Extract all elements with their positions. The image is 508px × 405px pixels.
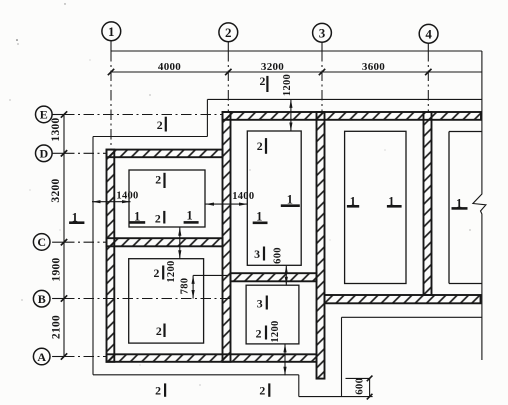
top dimension line with ticks — [110, 71, 482, 73]
dimension 1400 right — [206, 203, 248, 205]
grid line 1 centerline — [110, 41, 112, 51]
svg-text:3: 3 — [254, 247, 260, 261]
grid line 3 centerline — [321, 42, 323, 51]
footing rect small middle room — [246, 285, 299, 344]
top boundary dimension line — [111, 50, 482, 52]
svg-text:2: 2 — [153, 266, 159, 280]
svg-text:3: 3 — [257, 296, 263, 310]
grid bubble E — [36, 106, 53, 123]
svg-text:1: 1 — [108, 24, 115, 39]
outline lower-right edge — [342, 316, 482, 318]
svg-text:A: A — [37, 350, 46, 364]
outline step at grid 2 — [206, 99, 208, 136]
svg-text:2: 2 — [155, 383, 161, 397]
svg-text:1: 1 — [256, 210, 262, 224]
svg-text:600: 600 — [353, 378, 365, 395]
footing rect room D-C — [129, 170, 205, 227]
dimension 1400 left — [92, 201, 131, 203]
wall grid-C horizontal — [107, 238, 223, 246]
grid bubble 3 — [313, 23, 332, 42]
footing rect room C-A — [129, 259, 204, 343]
svg-text:2: 2 — [257, 139, 263, 153]
grid line 2 centerline — [227, 42, 229, 51]
grid bubble 2 — [219, 23, 238, 42]
svg-text:2: 2 — [256, 326, 262, 340]
outline left edge — [92, 137, 94, 375]
svg-text:2: 2 — [259, 74, 265, 88]
svg-text:1: 1 — [186, 209, 192, 223]
footing rect room 3-4 — [345, 131, 406, 283]
svg-text:2: 2 — [157, 118, 163, 132]
grid bubble C — [33, 234, 50, 251]
dimension 1200 left room — [179, 227, 181, 258]
wall mid horizontal between middle rooms — [231, 273, 317, 281]
grid line D centerline — [52, 152, 64, 154]
svg-text:2: 2 — [225, 25, 232, 40]
svg-text:1900: 1900 — [51, 257, 63, 281]
grid line B centerline — [52, 298, 64, 300]
wall grid-3 vertical — [317, 112, 325, 379]
wall grid-D horizontal — [107, 150, 223, 158]
svg-text:3200: 3200 — [261, 61, 284, 73]
svg-text:E: E — [40, 108, 48, 122]
svg-text:3: 3 — [319, 25, 326, 40]
outline bottom edge — [93, 374, 299, 376]
dimension 600 bottom right — [369, 378, 371, 396]
grid bubble 4 — [419, 24, 438, 43]
scan specks (decorative noise) — [16, 39, 18, 41]
svg-text:3200: 3200 — [50, 178, 62, 202]
svg-text:2: 2 — [155, 173, 161, 187]
svg-text:B: B — [38, 292, 46, 306]
svg-text:1400: 1400 — [116, 191, 138, 202]
svg-text:1200: 1200 — [282, 74, 293, 96]
grid line 4 centerline — [427, 43, 429, 51]
svg-text:1200: 1200 — [270, 320, 281, 342]
dimension 1200 bottom middle — [284, 344, 286, 375]
grid line A centerline — [52, 356, 64, 358]
grid bubble 1 — [102, 22, 121, 41]
outline bottom step — [298, 375, 300, 397]
dimension 1200 top — [290, 99, 292, 131]
svg-text:2: 2 — [259, 383, 265, 397]
svg-text:1: 1 — [287, 192, 293, 206]
foundation pit outline top edge — [207, 98, 482, 100]
dimension 780 — [192, 275, 194, 298]
svg-text:D: D — [39, 147, 48, 161]
footing rect middle tall room — [247, 131, 301, 265]
wall grid-A horizontal — [107, 354, 317, 362]
wall grid-B right horizontal — [325, 295, 481, 303]
footing rect rightmost room (clipped) — [449, 131, 482, 133]
svg-text:780: 780 — [179, 278, 190, 295]
grid line E centerline — [52, 114, 64, 116]
grid line C centerline — [52, 241, 64, 243]
dimension 600 middle — [285, 265, 287, 285]
wall grid-2 vertical — [223, 112, 231, 362]
svg-text:4000: 4000 — [158, 61, 181, 73]
break line right edge — [473, 51, 486, 360]
svg-text:2: 2 — [156, 324, 162, 338]
svg-text:1300: 1300 — [50, 117, 62, 141]
grid bubble D — [36, 145, 53, 162]
wall grid-4 vertical — [424, 112, 432, 295]
svg-text:1200: 1200 — [166, 260, 177, 282]
svg-text:2: 2 — [155, 211, 161, 225]
svg-text:C: C — [37, 235, 46, 249]
wall grid-1 vertical — [107, 150, 115, 362]
svg-text:1400: 1400 — [232, 191, 254, 202]
svg-text:3600: 3600 — [362, 61, 385, 73]
svg-text:4: 4 — [425, 26, 432, 41]
grid bubble B — [33, 290, 50, 307]
svg-text:600: 600 — [273, 247, 284, 264]
left dimension line with ticks — [63, 115, 65, 357]
svg-text:2100: 2100 — [51, 315, 63, 339]
grid bubble A — [33, 348, 50, 365]
wall grid-E horizontal — [223, 112, 482, 120]
